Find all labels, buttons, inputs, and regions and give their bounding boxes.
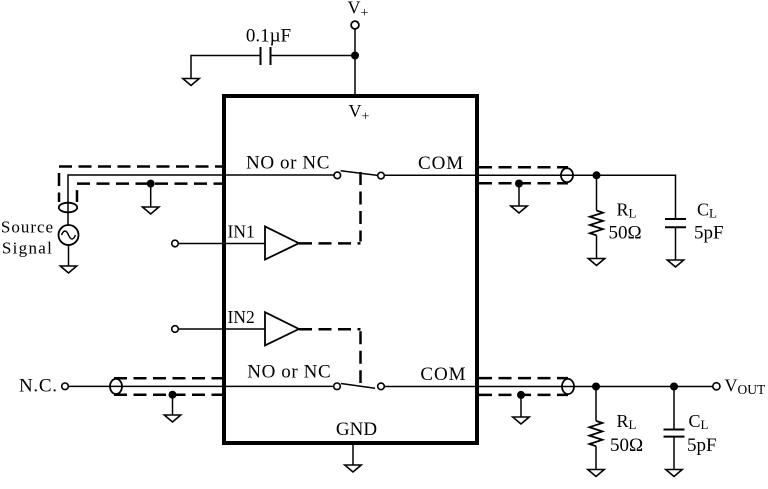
svg-text:5pF: 5pF <box>687 435 717 456</box>
coax shield opening ellipse (top-left) <box>59 203 77 213</box>
driver buffer U1B <box>265 312 299 345</box>
svg-text:COM: COM <box>420 364 466 385</box>
wire VOUT node to CL bottom <box>673 387 675 430</box>
coax shield lower dashed (bottom-right) <box>479 394 568 397</box>
svg-text:50Ω: 50Ω <box>610 435 643 456</box>
wire COM (row 1) to RL/CL <box>384 175 675 219</box>
capacitor C1 plates <box>261 47 271 65</box>
ground (top-left shield) <box>143 207 159 214</box>
wire shield to ground (bottom-right) <box>520 395 522 417</box>
source signal generator circle <box>59 225 79 245</box>
junction dot on shield (bottom-right) <box>517 391 525 399</box>
coax shield opening ellipse (top-right) <box>561 168 573 182</box>
wire source to NO/NC pin (row 1) <box>68 175 334 225</box>
junction dot RL top <box>593 171 601 179</box>
wire IN2 <box>178 328 265 330</box>
svg-text:GND: GND <box>336 419 377 440</box>
sine wave inside source <box>62 231 76 239</box>
ground (RL bottom) <box>588 470 604 477</box>
svg-text:COM: COM <box>418 153 464 174</box>
ground (CL bottom) <box>666 470 682 477</box>
wire COM (row 2) to VOUT <box>384 386 713 388</box>
svg-text:IN1: IN1 <box>228 222 255 242</box>
junction dot CL bottom <box>670 383 678 391</box>
svg-text:50Ω: 50Ω <box>609 223 642 244</box>
wire IN1 <box>178 243 265 245</box>
svg-text:Signal: Signal <box>2 239 53 258</box>
svg-text:N.C.: N.C. <box>19 376 58 397</box>
junction dot RL bottom <box>592 383 600 391</box>
coax shield upper dashed (bottom-right) <box>479 377 568 380</box>
wire V+ to box <box>354 29 356 96</box>
coax shield opening ellipse (bottom-right) <box>562 379 574 394</box>
coax shield lower dashed (bottom-left) <box>114 393 222 396</box>
switch S2 pole circle <box>334 383 341 390</box>
wire CL top to ground <box>675 227 677 260</box>
switch S1 pole circle <box>334 172 341 179</box>
wire C1 left plate to ground <box>191 56 260 79</box>
junction dot on shield (top-right) <box>515 180 523 188</box>
wire shield to ground (top-right) <box>518 184 520 207</box>
wire source to ground <box>68 245 70 266</box>
resistor RL bottom zigzag <box>589 421 602 446</box>
svg-text:IN2: IN2 <box>228 307 255 327</box>
dashed control line S1 <box>299 242 361 245</box>
wire shield to ground (top-left) <box>150 184 152 207</box>
terminal V+ <box>351 21 359 29</box>
svg-text:5pF: 5pF <box>694 223 724 244</box>
ground (bottom-right shield) <box>513 417 529 424</box>
coax shield lower dashed (top-right) <box>479 182 568 185</box>
wire RL top to ground <box>596 235 598 258</box>
junction dot on shield (top-left) <box>147 180 155 188</box>
coax shield upper dashed (bottom-left) <box>114 377 222 380</box>
coax shield opening ellipse (bottom-left) <box>110 379 122 394</box>
terminal N.C. <box>62 383 69 390</box>
coax shield outer dashed (top-left) <box>59 167 222 203</box>
switch S1 throw circle <box>378 172 385 179</box>
wire RL bottom to ground <box>595 446 597 469</box>
svg-text:NO or NC: NO or NC <box>246 153 330 174</box>
ground (top-right shield) <box>511 206 527 213</box>
ground (source) <box>60 266 76 273</box>
wire CL bottom to ground <box>673 437 675 470</box>
ground (CL top) <box>667 260 683 267</box>
IC outline box <box>224 96 477 443</box>
coax shield inner dashed (top-left) <box>77 184 222 202</box>
junction dot on shield (bottom-left) <box>169 391 177 399</box>
svg-text:Source: Source <box>1 218 54 237</box>
ground (GND pin) <box>345 465 361 472</box>
ground (bottom-left shield) <box>164 415 180 422</box>
wire shield to ground (bottom-left) <box>172 395 174 415</box>
wire VOUT node to RL bottom <box>595 387 597 421</box>
ground (RL top) <box>588 259 604 266</box>
wire C1 right plate to V+ node <box>271 55 356 57</box>
resistor RL top zigzag <box>590 211 603 236</box>
dashed control line S2 <box>299 328 361 331</box>
terminal VOUT <box>713 383 720 390</box>
terminal IN2 <box>172 326 179 333</box>
junction dot at V+ / C1 <box>351 52 359 60</box>
terminal IN1 <box>172 240 179 247</box>
wire N.C. to NO/NC pin (row 2) <box>68 385 334 387</box>
capacitor CL bottom plates <box>664 430 685 437</box>
ground (C1) <box>183 79 199 86</box>
svg-text:0.1µF: 0.1µF <box>246 26 291 47</box>
switch S2 throw circle <box>378 383 385 390</box>
svg-text:NO or NC: NO or NC <box>247 362 331 383</box>
driver buffer U1A <box>265 226 299 259</box>
wire COM node to RL top <box>596 175 598 210</box>
switch S1 arm <box>341 171 378 176</box>
switch S2 arm <box>341 384 375 389</box>
coax shield upper dashed (top-right) <box>479 166 568 169</box>
capacitor CL top plates <box>665 219 686 227</box>
wire GND pin <box>352 443 354 465</box>
